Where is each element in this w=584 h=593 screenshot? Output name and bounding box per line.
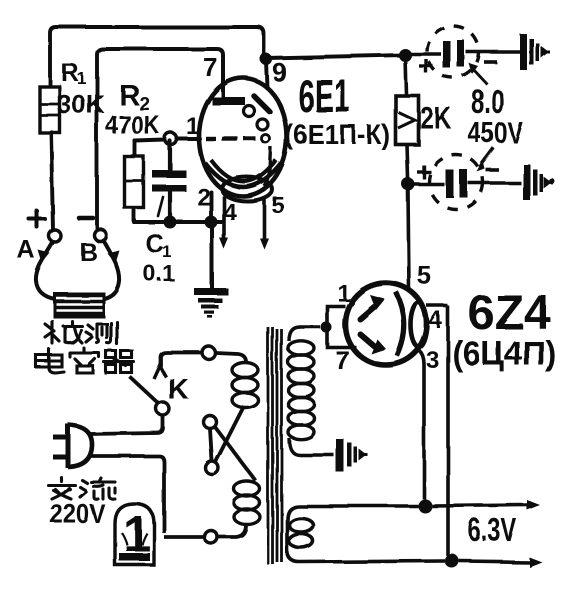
svg-text:3: 3	[426, 347, 439, 374]
svg-text:5: 5	[417, 260, 431, 290]
svg-text:K: K	[168, 374, 189, 406]
svg-text:220V: 220V	[50, 500, 106, 530]
svg-text:450V: 450V	[468, 116, 523, 149]
svg-text:(6Е1П-К): (6Е1П-К)	[285, 119, 390, 150]
svg-text:0.1: 0.1	[143, 260, 175, 286]
svg-text:30K: 30K	[57, 89, 105, 119]
svg-text:1: 1	[337, 280, 350, 307]
svg-text:B: B	[79, 238, 97, 266]
svg-text:4: 4	[429, 307, 443, 334]
svg-text:2K: 2K	[420, 100, 451, 135]
svg-text:1: 1	[77, 69, 86, 88]
svg-text:(6Ц4П): (6Ц4П)	[452, 335, 556, 373]
svg-text:6.3V: 6.3V	[468, 513, 517, 548]
svg-text:6Z4: 6Z4	[468, 287, 551, 340]
svg-text:9: 9	[272, 57, 286, 87]
svg-text:2: 2	[197, 184, 210, 211]
svg-text:7: 7	[335, 345, 349, 375]
svg-text:1: 1	[162, 242, 171, 261]
svg-text:7: 7	[203, 52, 217, 82]
svg-text:4: 4	[223, 199, 237, 226]
svg-text:R: R	[119, 80, 140, 112]
svg-text:1: 1	[186, 113, 199, 140]
svg-text:6E1: 6E1	[298, 72, 350, 123]
svg-text:A: A	[17, 236, 35, 264]
svg-text:470K: 470K	[106, 112, 160, 141]
svg-text:5: 5	[271, 192, 284, 219]
